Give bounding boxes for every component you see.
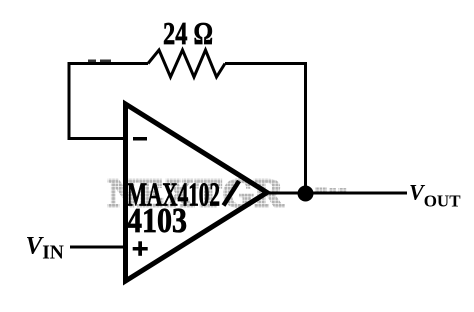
wire: V_IN to non-inverting input (70, 246, 126, 249)
svg-text:24 Ω: 24 Ω (163, 15, 213, 51)
watermark NEXTGR (108, 171, 347, 216)
noise speck on feedback wire (88, 60, 111, 63)
svg-text:VIN: VIN (26, 233, 64, 264)
wire: feedback top segment (69, 62, 148, 65)
wire: inverting input (68, 137, 127, 140)
wire: feedback right vertical (304, 62, 307, 193)
op-amp non-inverting input symbol (plus) (133, 241, 148, 256)
wire: feedback top right segment (225, 62, 306, 65)
op-amp inverting input symbol (minus) (133, 137, 147, 141)
svg-text:VOUT: VOUT (409, 180, 461, 211)
label: MAX4102/ (127, 177, 239, 214)
node: output junction dot (298, 186, 314, 202)
wire: output (264, 192, 407, 195)
svg-text:4103: 4103 (127, 201, 187, 240)
wire: feedback left vertical (68, 62, 71, 139)
op-amp U1 triangle MAX4102/4103 (126, 104, 268, 281)
resistor R1 zigzag (148, 50, 225, 77)
